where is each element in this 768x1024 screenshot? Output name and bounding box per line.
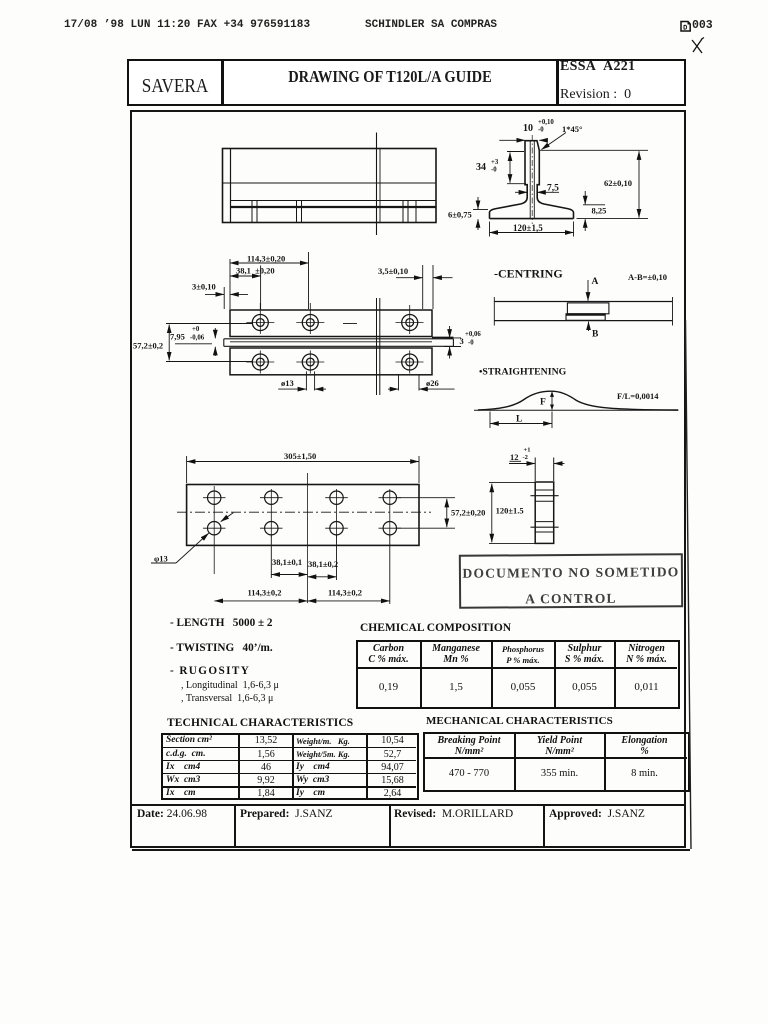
svg-text:38,1 ±0,20: 38,1 ±0,20 xyxy=(236,266,275,276)
svg-text:305±1,50: 305±1,50 xyxy=(284,451,316,461)
svg-text:A-B=±0,10: A-B=±0,10 xyxy=(628,272,667,282)
svg-text:1*45°: 1*45° xyxy=(562,124,582,134)
svg-text:•STRAIGHTENING: •STRAIGHTENING xyxy=(479,367,567,378)
svg-text:6±0,75: 6±0,75 xyxy=(448,210,472,220)
svg-text:ø26: ø26 xyxy=(426,378,439,388)
svg-text:3,5±0,10: 3,5±0,10 xyxy=(378,266,408,276)
svg-text:+3: +3 xyxy=(491,159,499,166)
svg-text:114,3±0,2: 114,3±0,2 xyxy=(328,588,362,598)
svg-text:120±1.5: 120±1.5 xyxy=(496,506,524,516)
svg-text:-CENTRING: -CENTRING xyxy=(494,267,563,281)
svg-text:57,2±0,20: 57,2±0,20 xyxy=(451,507,485,517)
svg-text:3: 3 xyxy=(460,336,464,346)
svg-text:A: A xyxy=(592,277,599,287)
svg-text:114,3±0,2: 114,3±0,2 xyxy=(248,588,282,598)
svg-text:+0,10: +0,10 xyxy=(538,119,554,126)
svg-text:114,3±0,20: 114,3±0,20 xyxy=(247,254,285,264)
svg-text:7,95: 7,95 xyxy=(170,332,185,342)
svg-text:F: F xyxy=(540,398,546,408)
svg-text:F/L=0,0014: F/L=0,0014 xyxy=(617,391,659,401)
svg-text:ø13: ø13 xyxy=(281,378,294,388)
svg-text:L: L xyxy=(516,415,522,425)
svg-text:38,1±0,1: 38,1±0,1 xyxy=(272,557,302,567)
svg-text:7,5: 7,5 xyxy=(547,184,559,194)
svg-text:-0: -0 xyxy=(538,127,544,134)
svg-text:-0: -0 xyxy=(468,340,474,347)
svg-text:34: 34 xyxy=(476,162,486,173)
svg-text:57,2±0,2: 57,2±0,2 xyxy=(133,341,163,351)
svg-text:+0: +0 xyxy=(192,326,200,333)
svg-text:B: B xyxy=(592,330,599,340)
svg-text:+1: +1 xyxy=(524,447,531,454)
svg-text:-0: -0 xyxy=(491,167,497,174)
svg-text:12: 12 xyxy=(510,452,519,462)
svg-text:8,25: 8,25 xyxy=(592,206,607,216)
svg-text:+0,06: +0,06 xyxy=(465,331,481,338)
svg-text:120±1,5: 120±1,5 xyxy=(513,223,543,233)
svg-text:38,1±0,2: 38,1±0,2 xyxy=(308,559,338,569)
svg-text:3±0,10: 3±0,10 xyxy=(192,282,216,292)
svg-text:10: 10 xyxy=(523,123,533,134)
svg-text:φ13: φ13 xyxy=(154,554,168,564)
svg-text:62±0,10: 62±0,10 xyxy=(604,178,632,188)
svg-text:-0,06: -0,06 xyxy=(190,335,205,342)
svg-text:-2: -2 xyxy=(523,454,528,461)
